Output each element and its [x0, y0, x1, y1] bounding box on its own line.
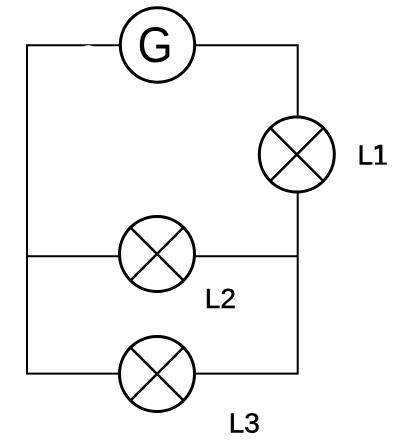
svg-text:L3: L3: [229, 407, 260, 438]
svg-text:L: L: [358, 140, 374, 171]
svg-text:G: G: [137, 18, 172, 73]
svg-text:L2: L2: [205, 283, 236, 314]
